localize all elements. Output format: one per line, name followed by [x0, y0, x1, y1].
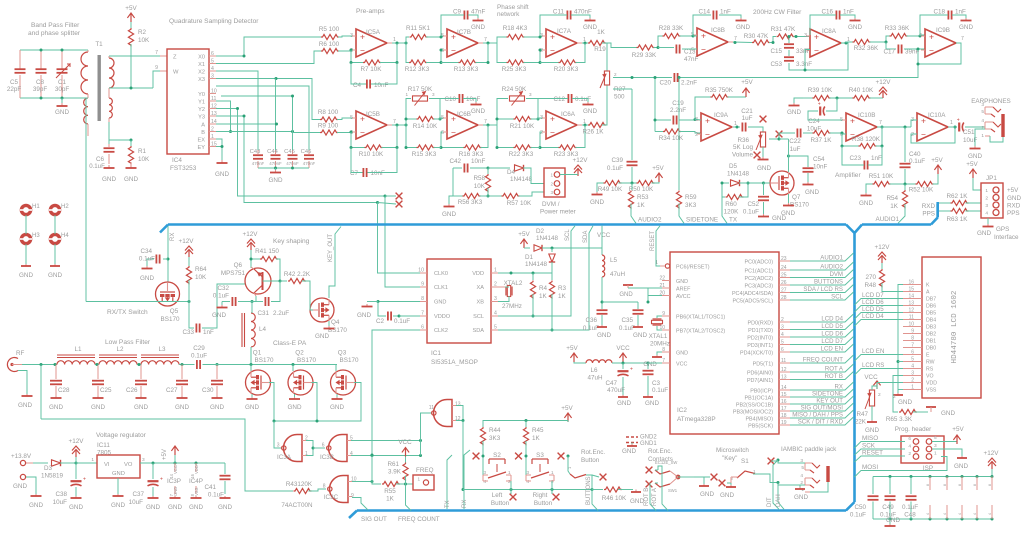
wire Q6 base right	[263, 280, 282, 283]
svg-text:R36: R36	[737, 137, 749, 144]
label VCC rail	[616, 345, 630, 362]
ground IC4	[215, 160, 229, 178]
wire lpf return	[41, 419, 293, 491]
label VCC bus	[597, 232, 611, 239]
svg-text:C19: C19	[672, 100, 684, 107]
svg-text:4: 4	[985, 211, 988, 217]
svg-text:C22: C22	[789, 138, 801, 145]
svg-text:R17 50K: R17 50K	[408, 86, 433, 93]
power +5V R35	[728, 79, 754, 97]
svg-text:1: 1	[508, 470, 511, 475]
wire C51 to jack	[965, 126, 985, 128]
svg-text:+: +	[83, 477, 86, 483]
wire R15 R16 join	[434, 147, 442, 149]
svg-text:IC1: IC1	[431, 350, 441, 357]
svg-text:2: 2	[540, 130, 543, 136]
svg-text:LCD EN: LCD EN	[862, 348, 884, 355]
hole H1	[20, 204, 40, 215]
wire R19 to R27	[602, 43, 607, 71]
wire Q5 right node	[180, 300, 191, 303]
svg-text:R55: R55	[384, 488, 396, 495]
svg-text:3: 3	[529, 92, 532, 97]
connector +13.8V	[11, 453, 33, 466]
svg-text:T1: T1	[95, 41, 103, 48]
wire IC4 pin14	[216, 123, 278, 126]
ground Q1	[245, 394, 259, 411]
resistor R1	[128, 140, 150, 165]
svg-text:10nF: 10nF	[374, 82, 389, 89]
power stub pair 2	[958, 477, 962, 520]
svg-text:R28 33K: R28 33K	[659, 25, 684, 32]
svg-text:+5V: +5V	[966, 161, 978, 168]
svg-text:−: −	[921, 130, 926, 140]
svg-text:+: +	[929, 32, 934, 42]
svg-text:GND: GND	[583, 108, 597, 115]
svg-text:−: −	[814, 46, 819, 56]
capacitor C22	[789, 129, 801, 154]
wire CLK0 to IC1	[385, 196, 427, 287]
svg-text:VCC: VCC	[676, 361, 687, 367]
svg-text:DVM /: DVM /	[542, 201, 560, 208]
wire IC3D inputs	[456, 406, 465, 492]
svg-text:C48: C48	[904, 512, 916, 519]
wire C33 right	[202, 284, 246, 328]
svg-text:C14: C14	[698, 9, 710, 16]
wire IC3C pin9 sigout	[352, 498, 387, 524]
wire C16 left	[810, 15, 836, 35]
svg-text:5: 5	[934, 435, 937, 441]
svg-text:R12 3K3: R12 3K3	[405, 66, 430, 73]
label RX at bus	[170, 233, 176, 241]
svg-text:1: 1	[305, 451, 308, 457]
svg-text:IC10A: IC10A	[928, 112, 946, 119]
wire net DVM	[790, 270, 854, 279]
ground R49	[590, 183, 604, 206]
wire IC3A inputs tied	[306, 441, 315, 456]
svg-text:R37 1K: R37 1K	[810, 137, 832, 144]
svg-text:R35 750K: R35 750K	[705, 87, 734, 94]
svg-text:2: 2	[908, 451, 911, 457]
resistor R55	[372, 481, 415, 502]
svg-text:R19: R19	[594, 46, 606, 53]
svg-text:CLK2: CLK2	[434, 328, 448, 334]
svg-text:FST3253: FST3253	[170, 165, 197, 172]
wire C10 left	[440, 98, 459, 100]
svg-text:X2: X2	[198, 69, 205, 75]
power +5V buttons	[561, 405, 573, 422]
svg-text:74ACT00N: 74ACT00N	[281, 502, 313, 509]
label SCL	[565, 229, 571, 241]
svg-text:5K Log: 5K Log	[733, 144, 753, 151]
resistor R9	[318, 123, 339, 136]
capacitor C53	[770, 50, 812, 68]
label Prog header	[895, 426, 931, 433]
svg-text:470nF: 470nF	[252, 161, 265, 166]
svg-text:10uF: 10uF	[53, 499, 68, 506]
wire R2 to T1 tap	[109, 44, 153, 90]
wire C18 left	[920, 15, 948, 36]
wire L3 out	[179, 363, 195, 366]
wire L5 down	[601, 277, 604, 309]
svg-text:AUDIO1: AUDIO1	[876, 216, 900, 223]
label RotEnc Button	[581, 449, 605, 464]
wire R18 R25 left join	[497, 43, 507, 63]
svg-text:GND: GND	[189, 504, 203, 511]
label DVM power meter	[540, 201, 576, 216]
wire S3 out	[552, 481, 559, 500]
svg-text:DB1: DB1	[926, 339, 936, 345]
svg-text:0.1uF: 0.1uF	[850, 512, 866, 519]
capacitor C8	[33, 50, 48, 98]
wire IC5B fb R10	[350, 125, 399, 149]
svg-text:SCL: SCL	[565, 229, 571, 241]
connector FREQ	[413, 467, 434, 490]
resistor R28	[659, 25, 684, 39]
svg-text:R47: R47	[856, 411, 868, 418]
svg-text:+12V: +12V	[876, 79, 892, 86]
resistor R29	[632, 45, 657, 59]
title Key shaping	[273, 238, 310, 245]
node bank dot 0	[889, 475, 892, 521]
wire R17 loop	[406, 99, 442, 126]
connector GND input	[13, 474, 36, 494]
svg-text:LCD EN: LCD EN	[821, 346, 843, 353]
svg-text:PC2(ADC2): PC2(ADC2)	[745, 276, 774, 282]
svg-text:C28: C28	[58, 387, 70, 394]
resistor R11	[406, 25, 431, 40]
capacitor C20	[659, 73, 697, 87]
wire IC6B minus fb	[440, 132, 464, 149]
svg-text:XTAL1: XTAL1	[649, 333, 668, 340]
svg-text:AUDIO2: AUDIO2	[638, 217, 662, 224]
resistor R59	[676, 76, 697, 209]
op-amp IC8A	[804, 28, 850, 57]
wire TX to bus	[721, 182, 738, 224]
svg-text:D4: D4	[507, 169, 516, 176]
wire IC3A to IC3B	[313, 447, 325, 449]
crystal XTAL1	[649, 316, 670, 348]
wire C42 left down	[452, 168, 454, 196]
svg-text:Right: Right	[533, 492, 548, 499]
resistor R43	[280, 271, 311, 303]
wire R31 to IC8A	[794, 35, 811, 38]
svg-text:GND: GND	[55, 109, 69, 116]
diode D5	[722, 163, 750, 186]
wire SCL	[498, 226, 575, 316]
svg-text:10K: 10K	[474, 183, 486, 190]
svg-text:R6 100: R6 100	[319, 41, 340, 48]
svg-text:GND: GND	[954, 463, 968, 470]
svg-text:X1: X1	[198, 62, 205, 68]
wire LCD RS right	[855, 362, 904, 375]
capacitor C41	[204, 463, 232, 511]
wire clock stub X 1	[385, 193, 402, 200]
title 200kHz CW Filter	[753, 9, 802, 16]
wire R21 left	[496, 118, 514, 121]
label RotEnc Contacts	[648, 448, 677, 465]
wire R14 left	[405, 118, 417, 121]
label IC4	[170, 157, 197, 172]
svg-text:+: +	[451, 32, 456, 42]
ground IC1 pin8	[357, 300, 420, 319]
wire IC6B out	[483, 124, 497, 127]
op-amp IC10A	[911, 112, 953, 141]
svg-text:R31 47K: R31 47K	[771, 26, 796, 33]
wire RESET isp	[855, 450, 906, 463]
ground C10	[463, 99, 485, 116]
wire IC3D out	[421, 413, 432, 456]
svg-text:R26 1K: R26 1K	[582, 129, 604, 136]
label Right Button	[533, 492, 553, 507]
capacitor C40	[900, 127, 926, 184]
svg-text:C3: C3	[652, 380, 661, 387]
svg-text:IC11: IC11	[97, 442, 110, 449]
svg-text:GND: GND	[597, 332, 611, 339]
svg-text:+: +	[705, 116, 710, 126]
svg-text:GND: GND	[112, 471, 125, 477]
svg-text:GND: GND	[757, 165, 771, 172]
svg-text:Rot.Enc.: Rot.Enc.	[648, 448, 672, 455]
svg-text:Phase shift: Phase shift	[497, 4, 529, 11]
svg-text:GND: GND	[49, 404, 63, 411]
power stub pair 3	[973, 477, 977, 520]
svg-text:C21: C21	[741, 108, 753, 115]
svg-text:+: +	[850, 116, 855, 126]
resistor R63	[939, 208, 969, 223]
svg-text:R21 10K: R21 10K	[510, 123, 535, 130]
capacitor C31	[252, 281, 289, 317]
resistor R33	[885, 25, 910, 39]
svg-text:470uF: 470uF	[607, 387, 625, 394]
wire VDD rail	[498, 272, 552, 275]
label pin2 lcd	[893, 394, 896, 400]
resistor R32	[853, 39, 880, 52]
svg-text:LCD D7: LCD D7	[862, 292, 884, 299]
svg-text:1: 1	[985, 188, 988, 194]
svg-text:BS170: BS170	[161, 316, 180, 323]
svg-text:C44: C44	[267, 149, 278, 155]
svg-text:ROT A: ROT A	[825, 366, 844, 373]
wire Q7 drain up	[788, 139, 790, 172]
svg-text:10K: 10K	[138, 156, 150, 163]
svg-text:DB0: DB0	[926, 346, 936, 352]
op IC2 ATmega328P body	[655, 252, 790, 434]
power +12V R64	[179, 238, 195, 266]
wire Y2 down	[216, 107, 385, 196]
wire IC4 EX EY to gnd	[216, 139, 224, 160]
ground R46	[630, 490, 644, 506]
svg-text:3: 3	[804, 33, 807, 39]
svg-text:R63 1K: R63 1K	[946, 216, 968, 223]
wire R29 to R28 C13	[654, 36, 675, 49]
svg-text:RF: RF	[16, 350, 25, 357]
ground Q4	[315, 321, 335, 340]
wire R11 to IC7B plus	[426, 36, 443, 39]
svg-text:C12: C12	[553, 96, 565, 103]
wire D5 out	[739, 182, 770, 185]
svg-text:0.1uF: 0.1uF	[394, 318, 410, 325]
svg-text:0.1uF: 0.1uF	[89, 163, 105, 170]
svg-text:+: +	[360, 32, 365, 42]
capacitor C19	[654, 100, 697, 125]
svg-text:3K3: 3K3	[685, 202, 697, 209]
wire IC10B fb C23	[842, 146, 882, 165]
svg-text:GND: GND	[583, 24, 597, 31]
wire reg gnd	[111, 478, 125, 509]
svg-text:C18: C18	[933, 9, 945, 16]
op-amp IC8B	[691, 27, 737, 56]
svg-text:DVM: DVM	[829, 271, 843, 278]
svg-text:47uH: 47uH	[587, 375, 603, 382]
wire C12 left	[538, 98, 568, 100]
wire VDDO	[399, 315, 420, 317]
svg-text:SDA / LCD RS: SDA / LCD RS	[803, 286, 843, 293]
svg-text:500: 500	[614, 94, 625, 101]
svg-text:6: 6	[691, 47, 694, 53]
ground R51	[859, 184, 873, 207]
svg-text:7: 7	[961, 36, 964, 42]
power +12V bank	[984, 450, 1000, 477]
wire net LCD D5	[790, 322, 854, 331]
svg-text:GND: GND	[210, 404, 224, 411]
title Pre-amps	[356, 8, 385, 15]
svg-text:S2: S2	[493, 452, 501, 459]
svg-text:C50: C50	[854, 504, 866, 511]
wire R36 wiper to C22	[769, 133, 795, 141]
svg-text:10uF: 10uF	[129, 499, 144, 506]
capacitor C30	[202, 365, 224, 412]
op-amp IC9B	[919, 27, 964, 57]
wire to IC10A plus	[911, 120, 917, 127]
svg-text:DB5: DB5	[926, 311, 936, 317]
power stub pair 4	[988, 477, 992, 520]
svg-text:4: 4	[943, 513, 947, 515]
svg-text:1: 1	[417, 477, 420, 482]
wire IC8B out	[733, 41, 752, 44]
ground R36	[757, 147, 771, 172]
svg-text:AVCC: AVCC	[676, 294, 691, 300]
resistor R10	[359, 145, 384, 158]
svg-text:4: 4	[926, 513, 930, 515]
svg-text:IC4P: IC4P	[189, 478, 203, 485]
svg-text:GND: GND	[720, 492, 734, 499]
svg-text:1: 1	[550, 173, 553, 178]
wire IC2 gnd8	[643, 352, 662, 368]
svg-text:GND: GND	[968, 153, 982, 160]
svg-text:KEY OUT: KEY OUT	[816, 398, 843, 405]
svg-text:3: 3	[985, 203, 988, 209]
svg-text:ATmega328P: ATmega328P	[677, 416, 716, 423]
label RESET	[650, 231, 656, 251]
svg-text:GND: GND	[848, 24, 862, 31]
ground BPF	[55, 98, 69, 116]
wire R23 to out	[576, 125, 586, 148]
label GPS Interface	[994, 226, 1019, 241]
svg-text:C42: C42	[449, 158, 461, 165]
svg-text:Volume: Volume	[732, 152, 754, 159]
svg-text:PC4(ADC4/SDA): PC4(ADC4/SDA)	[732, 291, 773, 297]
svg-text:1N4148: 1N4148	[525, 261, 548, 268]
svg-text:+12V: +12V	[984, 450, 1000, 457]
svg-text:R38 120K: R38 120K	[852, 136, 881, 143]
node clock drop 1	[384, 195, 387, 198]
bus main horizontal	[168, 204, 938, 511]
wire IC7B out fb	[441, 42, 497, 65]
svg-text:2: 2	[893, 394, 896, 400]
gate IC3D	[429, 400, 461, 427]
transistor Q6	[221, 262, 271, 296]
svg-text:1nF: 1nF	[955, 9, 966, 16]
svg-text:R57 10K: R57 10K	[507, 200, 532, 207]
svg-text:GND: GND	[13, 483, 27, 490]
svg-text:C23: C23	[849, 155, 861, 162]
ground Q3	[330, 394, 344, 411]
wire IC10A out	[948, 126, 957, 128]
svg-text:SIG OUT/MOSI: SIG OUT/MOSI	[801, 405, 844, 412]
svg-text:22pF: 22pF	[7, 86, 22, 93]
svg-text:R62 1K: R62 1K	[946, 193, 968, 200]
resistor R60	[722, 182, 750, 216]
capacitor C44	[267, 149, 282, 168]
svg-text:4: 4	[981, 118, 984, 124]
wire button top rail	[483, 419, 568, 427]
resistor R26	[582, 122, 606, 135]
wire R62 to JP1	[966, 203, 984, 205]
svg-text:PB4(MISO): PB4(MISO)	[745, 416, 773, 422]
transistor Q1	[246, 350, 274, 396]
connector JP1 GPS header	[981, 175, 1021, 218]
svg-text:SDA: SDA	[472, 328, 484, 334]
resistor R18	[503, 25, 528, 40]
resistor R19	[588, 29, 606, 53]
connector RF	[7, 350, 24, 372]
resistor R39	[803, 87, 833, 101]
title Quadrature Sampling Detector	[169, 18, 259, 25]
resistor R30	[744, 33, 770, 45]
svg-text:GND: GND	[886, 517, 900, 524]
wire net LCD D7	[790, 337, 854, 346]
node bank dot 6	[991, 475, 994, 521]
svg-text:GND: GND	[111, 502, 125, 509]
svg-text:47nF: 47nF	[471, 9, 486, 16]
wire RX riser	[462, 450, 470, 509]
svg-text:R33 36K: R33 36K	[885, 25, 910, 32]
trimmer R24	[502, 86, 532, 106]
capacitor C47	[605, 363, 633, 407]
resistor R50	[619, 180, 655, 193]
svg-text:Q4: Q4	[331, 319, 340, 326]
svg-text:B: B	[201, 130, 205, 136]
svg-text:+5V: +5V	[561, 405, 573, 412]
capacitor C48	[902, 477, 918, 520]
svg-text:R30 47K: R30 47K	[744, 33, 769, 40]
wire IC6A minus fb	[539, 132, 559, 149]
svg-text:GND: GND	[898, 399, 912, 406]
wire MISO	[855, 435, 906, 448]
svg-text:LCD D5: LCD D5	[821, 323, 843, 330]
svg-text:R59: R59	[685, 194, 697, 201]
svg-text:K: K	[926, 283, 930, 289]
ground LCD	[893, 393, 912, 406]
capacitor C7	[350, 168, 385, 177]
wire IC5A fb R7	[350, 43, 399, 64]
svg-text:GND: GND	[781, 210, 795, 217]
hole H3	[20, 233, 40, 244]
svg-text:Band Pass Filter: Band Pass Filter	[31, 22, 80, 29]
wire DAH to bus	[776, 483, 784, 510]
inductor L1	[57, 346, 95, 365]
svg-text:AUDIO2: AUDIO2	[820, 264, 843, 271]
